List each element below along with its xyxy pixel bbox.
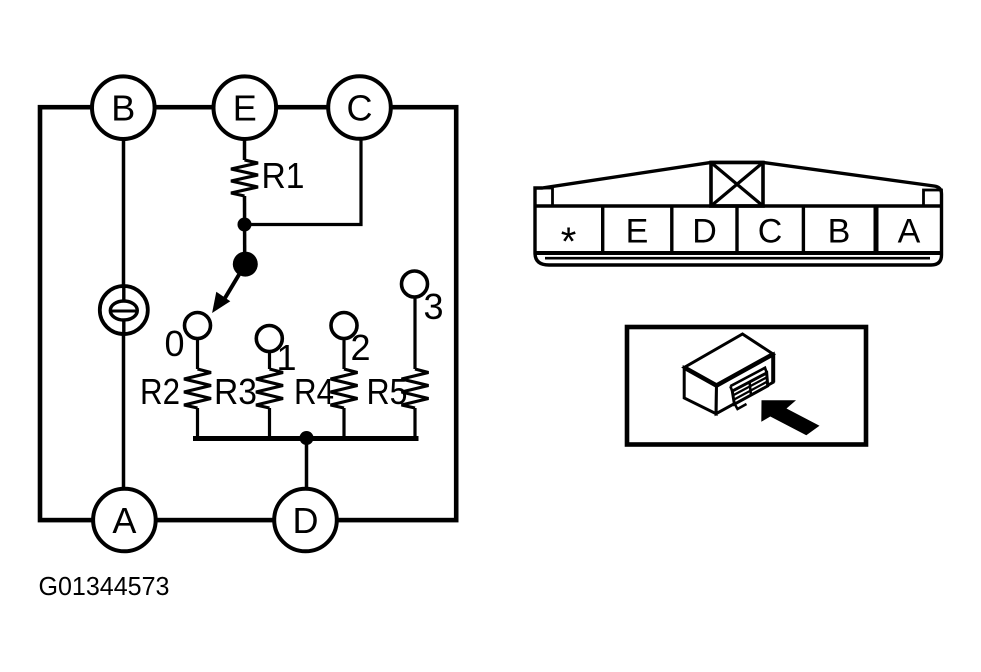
svg-text:*: *: [561, 220, 577, 264]
svg-text:2: 2: [351, 327, 371, 368]
svg-text:A: A: [112, 500, 136, 541]
svg-text:R2: R2: [140, 371, 180, 412]
svg-text:G01344573: G01344573: [39, 573, 170, 601]
svg-text:1: 1: [277, 337, 297, 378]
svg-text:B: B: [828, 213, 851, 251]
svg-text:C: C: [347, 88, 373, 129]
svg-text:R5: R5: [367, 371, 408, 412]
svg-text:R4: R4: [294, 371, 334, 412]
svg-text:A: A: [898, 213, 921, 251]
svg-text:D: D: [293, 500, 319, 541]
svg-text:D: D: [692, 213, 717, 251]
svg-text:C: C: [758, 213, 783, 251]
svg-text:E: E: [626, 213, 649, 251]
svg-text:0: 0: [165, 323, 185, 364]
svg-text:3: 3: [424, 286, 444, 327]
svg-text:B: B: [111, 88, 135, 129]
svg-text:R3: R3: [214, 371, 257, 412]
svg-text:R1: R1: [262, 155, 305, 196]
svg-text:E: E: [233, 88, 257, 129]
